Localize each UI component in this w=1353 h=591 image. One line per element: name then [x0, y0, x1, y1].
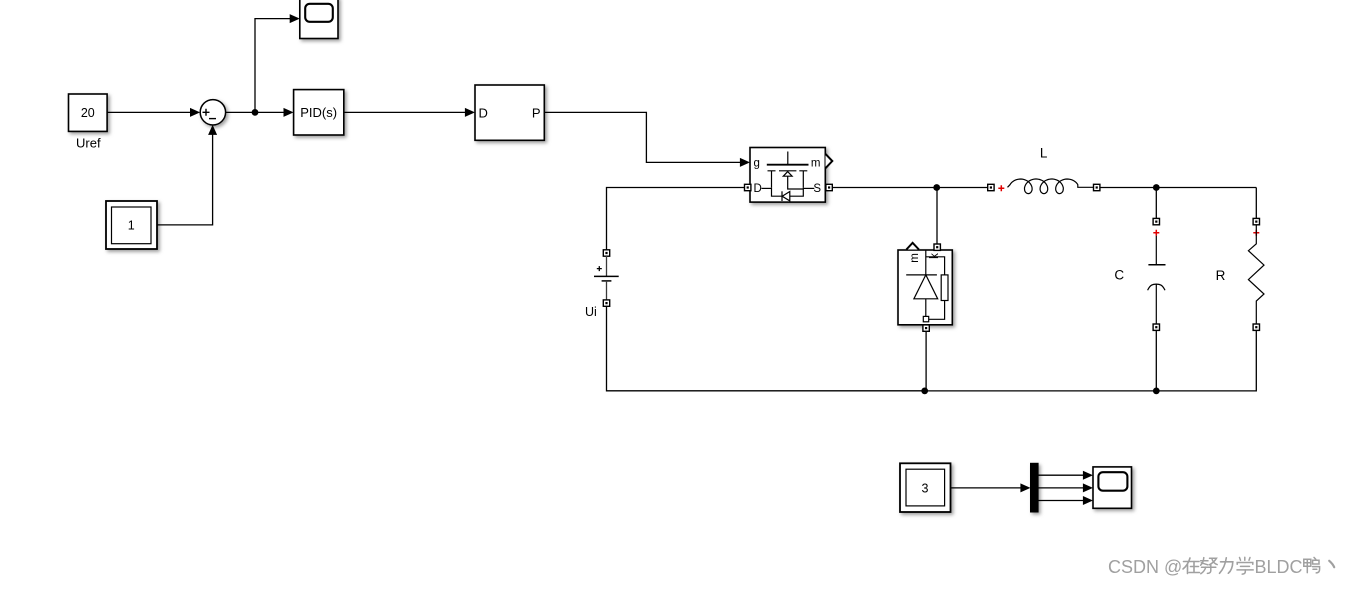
wire inport 1 to sum bottom: [157, 125, 217, 225]
wire resistor to ground bus: [1156, 330, 1256, 391]
PID controller block: [294, 90, 344, 135]
svg-text:BLDC: BLDC: [1255, 557, 1303, 577]
inport 3 value label: [922, 481, 929, 495]
watermark glyph dian: [1329, 561, 1334, 567]
diode block D1: [898, 250, 952, 325]
demux block: [1031, 463, 1039, 512]
watermark glyph ya: [1304, 557, 1320, 573]
wire battery plus up and to mosfet D: [607, 188, 745, 257]
inport 1 inner border: [112, 207, 152, 244]
battery plus sign: [597, 266, 602, 271]
resistor bottom port square: [1253, 324, 1259, 330]
diode m output chevron up: [906, 243, 919, 250]
mosfet body diode symbol: [782, 191, 790, 201]
capacitor top plate: [1148, 264, 1165, 266]
watermark glyph nu: [1201, 558, 1218, 574]
scope1 screen: [305, 4, 333, 22]
svg-text:D: D: [479, 105, 488, 120]
svg-text:S: S: [813, 183, 821, 195]
mosfet middle vertical to source: [788, 176, 804, 189]
svg-text:m: m: [909, 253, 921, 263]
watermark glyph zai: [1183, 558, 1200, 574]
svg-text:D: D: [754, 183, 762, 195]
wire capacitor to ground bus: [1155, 330, 1157, 391]
mosfet label g: [754, 158, 760, 170]
mosfet drain lead: [762, 187, 772, 189]
wire node down to diode top: [936, 188, 938, 245]
capacitor bottom lead: [1155, 284, 1157, 324]
mosfet S port square: [826, 184, 832, 190]
junction node ground bus at diode: [921, 388, 928, 395]
svg-text:1: 1: [128, 219, 135, 233]
label Ui: [585, 305, 597, 319]
battery top port square: [603, 250, 609, 256]
wire output node down to resistor: [1255, 188, 1257, 219]
svg-text:P: P: [532, 105, 541, 120]
PWM generator block: [475, 85, 544, 140]
sum minus sign: [209, 118, 216, 120]
label L: [1040, 146, 1048, 161]
mosfet body diode loop: [772, 187, 804, 196]
battery short plate: [602, 280, 612, 282]
scope2 screen: [1098, 472, 1127, 491]
label C: [1114, 268, 1124, 283]
mosfet label D: [754, 183, 762, 195]
svg-text:g: g: [754, 158, 760, 170]
junction node capacitor top: [1153, 184, 1160, 191]
wire 3 to demux: [951, 483, 1031, 492]
watermark glyph li: [1220, 558, 1233, 574]
diode snubber resistor rect: [941, 275, 948, 301]
diode rotated label k: [929, 253, 941, 259]
diode snubber top wire: [926, 257, 945, 275]
sum junction S1: [200, 100, 225, 125]
svg-text:Uref: Uref: [76, 136, 101, 151]
watermark glyph xue: [1237, 557, 1253, 574]
wire sum to PID with branch node: [225, 108, 293, 117]
PID label: [300, 105, 337, 120]
mosfet channel T-bar left: [768, 171, 776, 187]
mosfet body arrow triangle: [783, 172, 792, 177]
battery bottom stem: [606, 281, 608, 300]
svg-text:20: 20: [81, 106, 95, 120]
mosfet gate bar: [767, 164, 809, 166]
wire mosfet S to inductor: [832, 187, 987, 189]
resistor red plus: [1253, 230, 1259, 236]
wire battery minus down to ground bus: [607, 306, 925, 391]
capacitor top lead: [1155, 236, 1157, 265]
label Uref: [76, 136, 101, 151]
mosfet block Q1: [750, 148, 825, 203]
junction node ground bus at capacitor: [1153, 388, 1160, 395]
demux output wire 3: [1038, 496, 1093, 505]
diode anode line: [925, 299, 927, 320]
wire 20 to sum: [107, 108, 200, 117]
wire node down to capacitor: [1155, 188, 1157, 219]
wire PID to PWM generator: [344, 108, 475, 117]
junction node at error signal: [252, 109, 259, 116]
mosfet gate vertical line: [787, 152, 789, 165]
mosfet source lead: [803, 187, 814, 189]
svg-text:k: k: [929, 253, 941, 259]
battery top stem: [606, 256, 608, 276]
svg-text:Ui: Ui: [585, 305, 597, 319]
watermark text CSDN: [1108, 557, 1303, 577]
inport block 3: [900, 463, 951, 512]
label R: [1216, 268, 1226, 283]
scope1 block: [300, 0, 338, 39]
sum plus sign: [203, 109, 210, 116]
capacitor top port square: [1153, 218, 1159, 224]
scope2 block: [1093, 467, 1132, 508]
svg-text:PID(s): PID(s): [300, 105, 337, 120]
demux output wire 2: [1038, 483, 1093, 492]
diode snubber bottom wire: [926, 301, 945, 320]
inductor right port square: [1094, 184, 1100, 190]
ground bus wire: [607, 390, 1157, 392]
wire inductor to output node: [1100, 187, 1256, 189]
svg-text:3: 3: [922, 481, 929, 495]
mosfet m output chevron: [826, 154, 833, 168]
constant block Uref value 20: [69, 94, 108, 131]
inport 3 inner border: [906, 469, 945, 506]
demux output wire 1: [1038, 471, 1093, 480]
battery long plate: [594, 275, 619, 277]
capacitor bottom port square: [1153, 324, 1159, 330]
diode anode junction square: [923, 316, 928, 321]
PWM input label D: [479, 105, 488, 120]
svg-text:m: m: [811, 158, 821, 170]
svg-text:R: R: [1216, 268, 1226, 283]
inductor left port square: [988, 184, 994, 190]
capacitor red plus: [1153, 230, 1159, 236]
wire PWM P to mosfet gate: [544, 112, 750, 166]
diode cathode line: [925, 250, 927, 275]
wire diode anode to ground bus: [925, 331, 927, 391]
mosfet channel T-bar middle: [779, 170, 796, 172]
wire node up to scope1: [255, 14, 300, 112]
diode cathode bar: [906, 274, 937, 276]
capacitor curved plate: [1148, 284, 1165, 290]
mosfet D port square: [745, 184, 751, 190]
inport 1 value label: [128, 219, 135, 233]
inport block 1: [106, 201, 157, 249]
constant 20 value label: [81, 106, 95, 120]
battery bottom port square: [603, 300, 609, 306]
diode bottom port square: [923, 325, 929, 331]
diode top port square: [934, 244, 940, 250]
inductor coil: [1008, 179, 1094, 194]
mosfet channel T-bar right: [799, 171, 807, 187]
mosfet label S: [813, 183, 821, 195]
resistor top port square: [1253, 218, 1259, 224]
junction node diode cathode: [933, 184, 940, 191]
svg-text:L: L: [1040, 146, 1048, 161]
diode triangle: [914, 275, 938, 299]
resistor zigzag: [1248, 225, 1264, 324]
mosfet label m: [811, 158, 821, 170]
svg-text:C: C: [1114, 268, 1124, 283]
diode rotated label m: [909, 253, 921, 263]
svg-text:CSDN @: CSDN @: [1108, 557, 1182, 577]
PWM output label P: [532, 105, 541, 120]
inductor red plus: [998, 185, 1004, 191]
